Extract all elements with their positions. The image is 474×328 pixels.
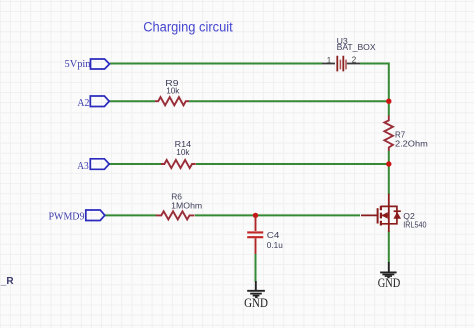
resistor R7: [384, 115, 393, 150]
port 5Vpin: [65, 58, 110, 70]
wire 5Vpin row to battery pin 1: [110, 63, 322, 65]
wire PWMD9 port to R6: [105, 214, 156, 216]
wire R14 to node B: [196, 163, 389, 165]
svg-text:GND: GND: [244, 296, 268, 310]
junction node B: [386, 161, 391, 166]
wire node B to Q2 drain: [388, 164, 390, 195]
svg-text:0.1u: 0.1u: [267, 240, 283, 250]
svg-text:2: 2: [352, 56, 357, 65]
wire R9 to node A: [189, 100, 389, 102]
svg-text:1: 1: [327, 56, 332, 65]
wire R7 bottom to node B: [388, 151, 390, 164]
svg-text:Charging circuit: Charging circuit: [143, 20, 233, 35]
svg-text:10k: 10k: [176, 147, 190, 157]
wire Q2 source to ground: [388, 232, 390, 263]
svg-text:1MOhm: 1MOhm: [171, 201, 202, 211]
svg-text:5Vpin: 5Vpin: [65, 58, 91, 70]
svg-text:PWMD9: PWMD9: [49, 211, 85, 223]
wire A2 port to R9: [109, 100, 155, 102]
capacitor C4: [247, 215, 263, 254]
svg-text:2.2Ohm: 2.2Ohm: [395, 139, 428, 149]
svg-text:BAT_BOX: BAT_BOX: [337, 42, 376, 52]
port A2: [77, 96, 109, 109]
svg-text:_R: _R: [0, 276, 14, 287]
resistor R6: [156, 211, 195, 219]
svg-text:A3: A3: [77, 160, 89, 172]
resistor R9: [155, 97, 189, 105]
svg-text:GND: GND: [378, 276, 401, 290]
svg-text:C4: C4: [267, 230, 280, 240]
port A3: [77, 159, 109, 172]
wire node A to R7 top: [388, 101, 390, 116]
ground below Q2: [380, 262, 397, 278]
ground below C4: [247, 281, 265, 297]
transistor Q2 IRL540: [361, 194, 401, 232]
wire A3 port to R14: [109, 163, 161, 165]
port PWMD9: [49, 210, 105, 223]
svg-text:IRL540: IRL540: [403, 219, 426, 229]
resistor R14: [161, 160, 196, 168]
svg-text:10k: 10k: [166, 85, 180, 95]
wire C4 to ground: [255, 254, 257, 282]
svg-text:A2: A2: [77, 97, 89, 109]
wire battery pin 2 to right corner down to node A: [360, 64, 389, 102]
battery U3 BAT_BOX: [322, 56, 360, 72]
junction node C: [253, 213, 258, 218]
wire R6 through node C to Q2 gate lead: [195, 214, 360, 216]
junction node A: [386, 99, 391, 104]
